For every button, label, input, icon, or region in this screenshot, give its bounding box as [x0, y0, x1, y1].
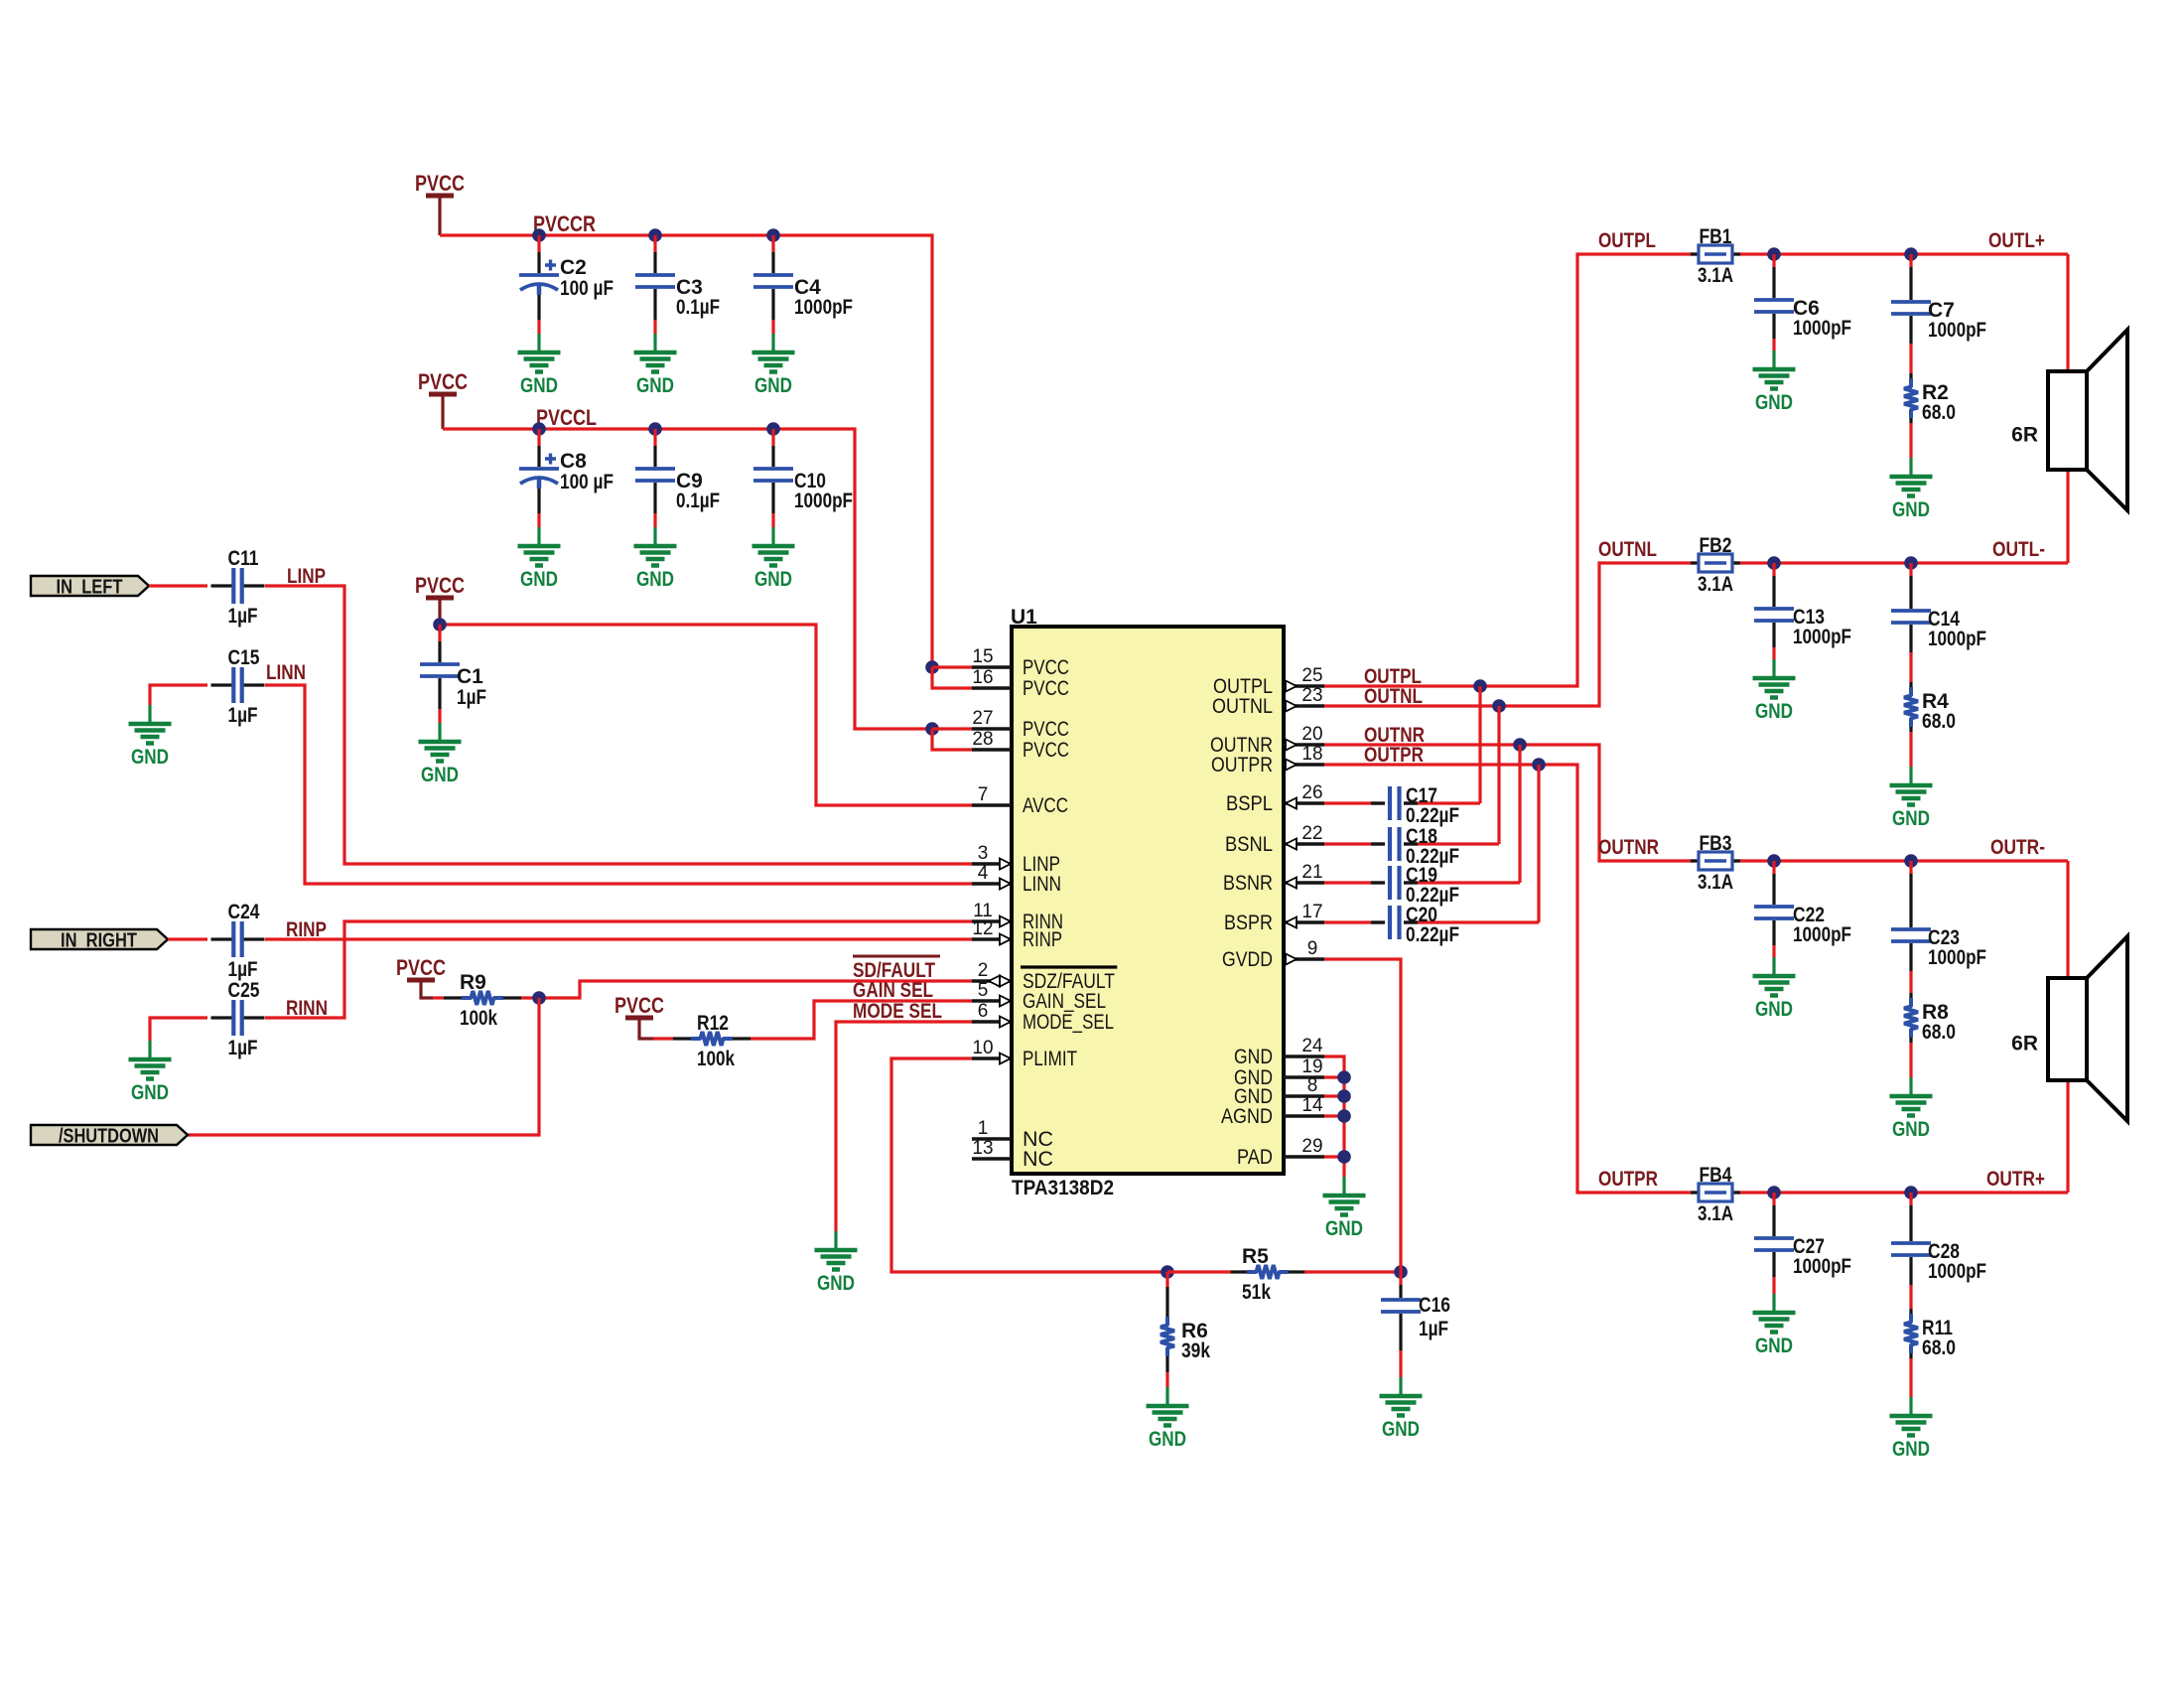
ground under C4 [752, 334, 795, 372]
svg-text:6R: 6R [2011, 1033, 2038, 1055]
svg-text:1µF: 1µF [228, 1037, 258, 1059]
svg-text:MODE SEL: MODE SEL [853, 1000, 942, 1023]
svg-text:R9: R9 [460, 971, 486, 994]
svg-text:68.0: 68.0 [1922, 1021, 1956, 1044]
ferrite bead FB1 [1691, 225, 1740, 287]
svg-text:GND: GND [754, 568, 792, 591]
wire RINP to pin 12 [265, 937, 972, 940]
junction OUTNL/BSNL [1492, 699, 1506, 713]
ground under R11 [1890, 1397, 1933, 1436]
pin 9 GVDD [1222, 938, 1324, 971]
capacitor C25 [211, 979, 265, 1059]
wire speaker LS2 to OUTR+ [2066, 1080, 2069, 1193]
svg-text:1000pF: 1000pF [1793, 923, 1851, 946]
wire RINN ground side [150, 1018, 207, 1041]
junction PAD pin 29 [1337, 1150, 1351, 1164]
svg-text:C24: C24 [228, 901, 260, 923]
capacitor C8 [519, 429, 614, 527]
wire shutdown net [188, 998, 539, 1135]
resistor R8 [1904, 943, 1956, 1077]
svg-text:29: 29 [1301, 1136, 1322, 1157]
pin 11 RINN [972, 901, 1063, 933]
svg-text:17: 17 [1301, 902, 1322, 922]
svg-text:68.0: 68.0 [1922, 1336, 1956, 1359]
speaker LS2 (6R) [2048, 936, 2127, 1121]
svg-text:0.22µF: 0.22µF [1406, 804, 1459, 827]
wire speaker LS1 to OUTL- [2066, 470, 2069, 563]
wire GVDD to R5/C16 node [1324, 959, 1401, 1272]
svg-text:GND: GND [520, 374, 558, 397]
wire RINN to pin 11 [265, 921, 972, 1018]
svg-text:BSPL: BSPL [1226, 791, 1273, 815]
wire LINP to pin 3 [265, 586, 972, 864]
svg-text:PVCC: PVCC [396, 955, 446, 980]
wire LINP [149, 584, 207, 587]
svg-text:100 µF: 100 µF [560, 471, 614, 493]
svg-text:26: 26 [1301, 782, 1322, 803]
svg-text:MODE_SEL: MODE_SEL [1023, 1010, 1114, 1034]
wire BS row C18 [1324, 842, 1371, 845]
junction OUTNR at C22 [1767, 854, 1781, 868]
wire PVCCR rail [440, 235, 932, 667]
wire PVCC to R12 [639, 1018, 653, 1039]
junction PVCCL at C10 [766, 422, 780, 436]
junction OUTNR/BSNR [1513, 738, 1527, 752]
capacitor C28 [1891, 1193, 1986, 1283]
wire OUTNL net [1324, 563, 1692, 706]
svg-text:FB4: FB4 [1700, 1164, 1732, 1187]
svg-text:U1: U1 [1011, 606, 1037, 629]
capacitor C18 [1390, 825, 1459, 868]
svg-text:1µF: 1µF [228, 958, 258, 981]
wire BSPL link [1478, 686, 1481, 803]
svg-text:FB2: FB2 [1700, 534, 1732, 557]
svg-text:19: 19 [1301, 1056, 1322, 1077]
capacitor C10 [753, 429, 853, 527]
svg-text:0.22µF: 0.22µF [1406, 923, 1459, 946]
svg-text:1µF: 1µF [228, 605, 258, 628]
wire LINN ground side [150, 685, 207, 705]
svg-text:OUTNL: OUTNL [1598, 538, 1657, 561]
pin 19 GND [1234, 1056, 1324, 1089]
capacitor C27 [1754, 1193, 1851, 1294]
wire BSNL link [1497, 706, 1500, 844]
wire OUTL+ to speaker LS1 [2066, 254, 2069, 371]
svg-text:3.1A: 3.1A [1698, 871, 1733, 894]
svg-text:/SHUTDOWN: /SHUTDOWN [59, 1126, 159, 1148]
svg-text:PAD: PAD [1237, 1145, 1273, 1169]
wire OUTPL row [1692, 252, 2068, 255]
svg-text:OUTL-: OUTL- [1992, 538, 2045, 561]
junction PVCCR at C2 [532, 228, 546, 242]
capacitor C23 [1891, 861, 1986, 969]
capacitor C2 [519, 235, 614, 334]
svg-text:9: 9 [1307, 938, 1318, 959]
svg-text:GND: GND [754, 374, 792, 397]
resistor R11 [1904, 1257, 1956, 1397]
junction OUTNL at C13 [1767, 556, 1781, 570]
svg-text:LINN: LINN [1023, 872, 1061, 896]
svg-text:OUTPL: OUTPL [1598, 229, 1656, 252]
capacitor C22 [1754, 861, 1851, 957]
capacitor C9 [635, 429, 720, 527]
svg-text:5: 5 [978, 980, 989, 1001]
svg-text:10: 10 [972, 1038, 993, 1058]
svg-text:AGND: AGND [1221, 1104, 1273, 1128]
svg-text:PVCC: PVCC [1023, 676, 1069, 700]
junction at C1 [433, 618, 447, 632]
wire OUTNL row [1692, 561, 2068, 564]
capacitor C14 [1891, 563, 1986, 650]
svg-text:1µF: 1µF [1419, 1318, 1448, 1340]
svg-text:1000pF: 1000pF [794, 296, 853, 319]
wire RINP [168, 937, 207, 940]
svg-text:TPA3138D2: TPA3138D2 [1012, 1177, 1114, 1199]
junction R5/C16/GVDD [1394, 1265, 1408, 1279]
capacitor C13 [1754, 563, 1851, 659]
pin 14 AGND [1221, 1095, 1324, 1128]
junction R5/R6 [1160, 1265, 1174, 1279]
svg-text:GND: GND [1755, 700, 1793, 723]
wire OUTR- to speaker LS2 [2066, 861, 2069, 978]
wire PVCC to R9 [421, 980, 433, 998]
pin 8 GND [1234, 1075, 1324, 1108]
svg-text:12: 12 [972, 918, 993, 939]
pin 15 PVCC [972, 646, 1069, 679]
svg-text:GND: GND [1325, 1217, 1363, 1240]
svg-text:PLIMIT: PLIMIT [1023, 1047, 1077, 1070]
svg-text:BSNL: BSNL [1225, 832, 1273, 856]
wire BS row C20 [1324, 920, 1371, 923]
ground under C9 [634, 527, 677, 566]
ground under C10 [752, 527, 795, 566]
svg-text:OUTNL: OUTNL [1212, 694, 1273, 718]
svg-text:27: 27 [972, 708, 993, 729]
pin 27 PVCC [972, 708, 1069, 741]
svg-text:100k: 100k [460, 1007, 497, 1030]
svg-text:PVCC: PVCC [1023, 738, 1069, 762]
svg-text:IN_LEFT: IN_LEFT [57, 577, 123, 599]
svg-text:R12: R12 [697, 1012, 729, 1035]
svg-text:100 µF: 100 µF [560, 277, 614, 300]
junction PVCCR at C4 [766, 228, 780, 242]
pin 1 NC [972, 1118, 1053, 1151]
wire MODE_SEL to ground [836, 1022, 972, 1231]
svg-text:GND: GND [520, 568, 558, 591]
pin 13 NC [972, 1138, 1053, 1171]
capacitor C1 [420, 625, 486, 723]
resistor R12 [673, 1012, 751, 1070]
capacitor C7 [1891, 254, 1986, 342]
capacitor C6 [1754, 254, 1851, 351]
resistor R4 [1904, 625, 1956, 767]
speaker LS1 (6R) [2048, 330, 2127, 510]
ground under R8 [1890, 1077, 1933, 1116]
pin 16 PVCC [972, 667, 1069, 700]
svg-text:LINN: LINN [266, 661, 306, 684]
svg-text:23: 23 [1301, 685, 1322, 706]
svg-text:PVCC: PVCC [415, 573, 465, 598]
svg-text:0.1µF: 0.1µF [676, 490, 720, 512]
ground under C27 [1753, 1294, 1796, 1333]
svg-text:OUTNR: OUTNR [1598, 836, 1659, 859]
svg-text:3.1A: 3.1A [1698, 573, 1733, 596]
connector IN_RIGHT [31, 929, 168, 949]
svg-text:7: 7 [978, 784, 989, 805]
svg-text:1000pF: 1000pF [1928, 628, 1986, 650]
junction OUTPL/BSPL [1473, 679, 1487, 693]
pin 5 GAIN_SEL [972, 980, 1106, 1013]
junction OUTPL at C6 [1767, 247, 1781, 261]
svg-text:6: 6 [978, 1001, 989, 1022]
capacitor C20 [1390, 904, 1459, 946]
wire BSPR link [1537, 765, 1540, 922]
svg-text:GND: GND [421, 764, 459, 786]
pin 24 GND [1234, 1036, 1324, 1068]
ferrite bead FB3 [1691, 832, 1740, 894]
svg-text:22: 22 [1301, 823, 1322, 844]
wire OUTPR net [1324, 765, 1692, 1193]
pin 21 BSNR [1223, 862, 1324, 895]
wire R5 left lead [1167, 1270, 1231, 1273]
svg-text:OUTL+: OUTL+ [1988, 229, 2045, 252]
junction PVCC pins 27/28 [925, 722, 939, 736]
svg-text:1000pF: 1000pF [1928, 319, 1986, 342]
wire LINN to pin 4 [265, 685, 972, 884]
svg-text:1000pF: 1000pF [794, 490, 853, 512]
IC U1 TPA3138D2 body [1012, 627, 1284, 1174]
capacitor C11 [211, 547, 265, 628]
svg-text:IN_RIGHT: IN_RIGHT [61, 930, 137, 952]
svg-text:68.0: 68.0 [1922, 401, 1956, 424]
junction OUTPR at C28 [1904, 1186, 1918, 1199]
svg-text:1000pF: 1000pF [1793, 317, 1851, 340]
svg-text:NC: NC [1023, 1147, 1053, 1171]
svg-text:1000pF: 1000pF [1928, 1260, 1986, 1283]
svg-text:PVCC: PVCC [415, 171, 465, 196]
wire PLIMIT to R5 node [891, 1058, 1167, 1272]
junction PVCCL at C9 [648, 422, 662, 436]
capacitor C3 [635, 235, 720, 334]
junction PVCCL at C8 [532, 422, 546, 436]
svg-text:GND: GND [1892, 1118, 1930, 1141]
ground under C13 [1753, 659, 1796, 698]
svg-text:1µF: 1µF [457, 686, 486, 709]
svg-text:GND: GND [1892, 498, 1930, 521]
svg-text:1000pF: 1000pF [1928, 946, 1986, 969]
svg-text:GND: GND [636, 374, 674, 397]
svg-text:R5: R5 [1242, 1245, 1269, 1268]
svg-text:1000pF: 1000pF [1793, 1255, 1851, 1278]
pin 28 PVCC [972, 729, 1069, 762]
svg-text:8: 8 [1307, 1075, 1318, 1096]
wire AVCC from C1 node [440, 625, 972, 805]
pin 22 BSNL [1225, 823, 1324, 856]
svg-text:GND: GND [1892, 1438, 1930, 1461]
svg-text:68.0: 68.0 [1922, 710, 1956, 733]
svg-text:GND: GND [131, 746, 169, 769]
wire GND bus [1324, 1056, 1344, 1177]
ground at chip GND bus [1323, 1177, 1366, 1215]
svg-text:BSNR: BSNR [1223, 871, 1273, 895]
junction OUTNR at C23 [1904, 854, 1918, 868]
junction R9 / shutdown net [532, 991, 546, 1005]
wire OUTPL net [1324, 254, 1692, 686]
pin 20 OUTNR [1210, 724, 1324, 757]
svg-text:GND: GND [1755, 1335, 1793, 1357]
svg-text:GAIN SEL: GAIN SEL [853, 979, 933, 1002]
svg-text:RINP: RINP [1023, 927, 1062, 951]
svg-text:28: 28 [972, 729, 993, 750]
wire R9 to SDZ/FAULT pin 2 [521, 996, 539, 999]
svg-text:FB3: FB3 [1700, 832, 1732, 855]
svg-text:C16: C16 [1419, 1294, 1450, 1317]
pin 25 OUTPL [1213, 665, 1324, 698]
svg-text:1: 1 [978, 1118, 989, 1139]
junction OUTPR at C27 [1767, 1186, 1781, 1199]
ground under R4 [1890, 767, 1933, 805]
capacitor C17 [1390, 784, 1459, 827]
pin 3 LINP [972, 843, 1060, 876]
svg-text:C15: C15 [228, 646, 260, 669]
svg-text:3.1A: 3.1A [1698, 1202, 1733, 1225]
junction PVCC pins 15/16 [925, 660, 939, 674]
ferrite bead FB4 [1691, 1164, 1740, 1225]
svg-text:GND: GND [1892, 807, 1930, 830]
svg-text:C1: C1 [457, 665, 483, 688]
junction OUTPR/BSPR [1532, 758, 1546, 772]
svg-text:3: 3 [978, 843, 989, 864]
pin 29 PAD [1237, 1136, 1324, 1169]
ground under C6 [1753, 351, 1796, 389]
svg-text:24: 24 [1301, 1036, 1323, 1056]
svg-text:OUTNL: OUTNL [1364, 685, 1423, 708]
svg-text:100k: 100k [697, 1048, 735, 1070]
resistor R2 [1904, 316, 1956, 458]
svg-text:FB1: FB1 [1700, 225, 1732, 248]
junction GND pin 8 [1337, 1089, 1351, 1103]
junction GND pin 19 [1337, 1070, 1351, 1084]
capacitor C24 [211, 901, 265, 981]
wire OUTPR row [1692, 1191, 2068, 1194]
pin 4 LINN [972, 863, 1061, 896]
svg-text:1000pF: 1000pF [1793, 626, 1851, 648]
svg-text:2: 2 [978, 960, 989, 981]
svg-text:AVCC: AVCC [1023, 793, 1068, 817]
svg-text:C25: C25 [228, 979, 260, 1002]
svg-text:GND: GND [1755, 391, 1793, 414]
ground under R2 [1890, 458, 1933, 496]
ground under C16 [1380, 1377, 1423, 1416]
ground under R6 [1147, 1387, 1189, 1426]
ground under C3 [634, 334, 677, 372]
svg-text:GND: GND [131, 1081, 169, 1104]
pin 12 RINP [972, 918, 1062, 951]
svg-text:OUTR-: OUTR- [1990, 836, 2045, 859]
pin 18 OUTPR [1211, 744, 1324, 776]
svg-text:51k: 51k [1242, 1281, 1271, 1304]
junction AGND pin 14 [1337, 1109, 1351, 1123]
svg-text:C8: C8 [560, 450, 587, 473]
svg-text:PVCC: PVCC [418, 369, 468, 394]
wire OUTNR net [1324, 745, 1692, 861]
resistor R6 [1160, 1272, 1210, 1387]
connector /SHUTDOWN [31, 1125, 188, 1145]
svg-text:OUTPR: OUTPR [1364, 744, 1424, 767]
svg-text:18: 18 [1301, 744, 1322, 765]
wire PVCCL rail [443, 429, 932, 729]
svg-text:6R: 6R [2011, 424, 2038, 447]
svg-text:OUTR+: OUTR+ [1986, 1168, 2045, 1191]
svg-text:GND: GND [1382, 1418, 1420, 1441]
svg-text:4: 4 [978, 863, 989, 884]
svg-text:39k: 39k [1181, 1339, 1210, 1362]
pin 17 BSPR [1224, 902, 1324, 934]
wire BS row C17 [1324, 801, 1371, 804]
svg-text:GND: GND [1755, 998, 1793, 1021]
svg-text:15: 15 [972, 646, 993, 667]
svg-text:1µF: 1µF [228, 704, 258, 727]
ground under C2 [518, 334, 561, 372]
wire R5 right to C16 node [1304, 1270, 1401, 1273]
svg-text:3.1A: 3.1A [1698, 264, 1733, 287]
svg-text:14: 14 [1301, 1095, 1323, 1116]
svg-text:21: 21 [1301, 862, 1322, 883]
capacitor C19 [1390, 864, 1459, 907]
wire R12 to GAIN_SEL pin 5 [751, 1001, 972, 1039]
pin 2 SDZ/FAULT [972, 960, 1117, 993]
ground at C15 [129, 705, 172, 744]
svg-text:C2: C2 [560, 256, 587, 279]
svg-text:GVDD: GVDD [1222, 947, 1273, 971]
svg-text:PVCC: PVCC [614, 993, 664, 1018]
connector IN_LEFT [31, 576, 149, 596]
svg-text:BSPR: BSPR [1224, 911, 1273, 934]
ferrite bead FB2 [1691, 534, 1740, 596]
wire BSNR link [1518, 745, 1521, 883]
ground under C8 [518, 527, 561, 566]
svg-text:13: 13 [972, 1138, 993, 1159]
svg-text:25: 25 [1301, 665, 1322, 686]
junction OUTPL at C7 [1904, 247, 1918, 261]
pin 23 OUTNL [1212, 685, 1324, 718]
svg-text:GND: GND [636, 568, 674, 591]
svg-text:0.1µF: 0.1µF [676, 296, 720, 319]
wire BS row C19 [1324, 881, 1371, 884]
pin 7 AVCC [972, 784, 1068, 817]
wire OUTNR row [1692, 859, 2068, 862]
capacitor C15 [211, 646, 265, 727]
pin 10 PLIMIT [972, 1038, 1077, 1070]
ground under C22 [1753, 957, 1796, 996]
resistor R5 [1229, 1245, 1306, 1304]
resistor R9 [444, 971, 521, 1030]
capacitor C16 [1381, 1272, 1450, 1377]
svg-text:20: 20 [1301, 724, 1322, 745]
svg-text:GND: GND [1149, 1428, 1186, 1451]
svg-text:OUTPR: OUTPR [1598, 1168, 1658, 1191]
svg-text:16: 16 [972, 667, 993, 688]
svg-text:OUTPR: OUTPR [1211, 753, 1273, 776]
ground at MODE_SEL [815, 1231, 858, 1270]
ground at C25 [129, 1041, 172, 1079]
pin 26 BSPL [1226, 782, 1324, 815]
capacitor C4 [753, 235, 853, 334]
junction OUTNL at C14 [1904, 556, 1918, 570]
ground under C1 [419, 723, 462, 762]
junction PVCCR at C3 [648, 228, 662, 242]
svg-text:C11: C11 [228, 547, 259, 570]
